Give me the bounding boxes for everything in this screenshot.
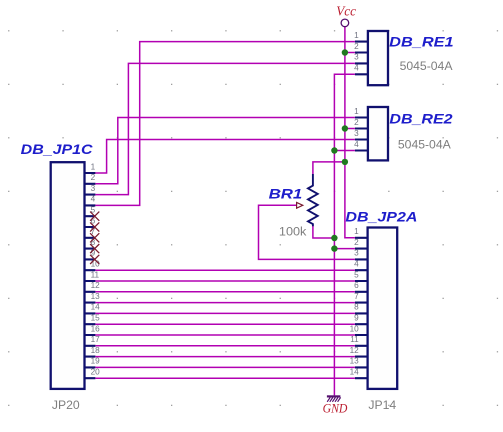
svg-text:2: 2 <box>354 42 359 51</box>
wire BR1 top to Vcc rail <box>313 162 345 174</box>
svg-text:18: 18 <box>91 346 101 355</box>
wire BR1 bottom to GND rail <box>313 226 335 238</box>
DB_JP1C pin stubs 1-20 <box>85 173 96 378</box>
DB_JP2A pin numbers 1-14 <box>350 227 360 376</box>
wire JP1C.3 to RE1.3 <box>95 63 355 194</box>
svg-text:DB_RE2: DB_RE2 <box>389 112 453 127</box>
svg-text:2: 2 <box>354 238 359 247</box>
power port Vcc (circle) <box>341 19 349 27</box>
svg-text:1: 1 <box>91 162 96 171</box>
junction Vcc-BR1.top <box>342 159 348 165</box>
DB_RE1 pin stubs 1-4 <box>355 42 368 75</box>
svg-text:DB_JP2A: DB_JP2A <box>345 209 417 224</box>
bus wires JP1C pins 10-20 to JP2A pins 4-14 <box>95 270 355 378</box>
svg-text:DB_RE1: DB_RE1 <box>389 34 453 49</box>
svg-text:2: 2 <box>91 173 96 182</box>
svg-text:4: 4 <box>91 195 96 204</box>
wire GND tap RE2.4 <box>334 150 355 152</box>
no-connect X marks on JP1C pins 5-9 <box>90 212 99 264</box>
wire Vcc rail down to JP2A.1 <box>345 27 355 238</box>
wire Vcc tap to RE1.2 <box>345 52 355 54</box>
svg-text:9: 9 <box>354 314 359 323</box>
junction Vcc-RE2.2 <box>342 125 348 131</box>
svg-text:4: 4 <box>354 140 359 149</box>
svg-text:Vcc: Vcc <box>336 4 357 19</box>
DB_JP1C pin numbers 1-20 <box>91 162 101 376</box>
svg-text:15: 15 <box>91 314 101 323</box>
svg-text:19: 19 <box>91 357 101 366</box>
DB_RE2 pin stubs 1-4 <box>355 118 368 151</box>
svg-text:11: 11 <box>350 335 359 344</box>
wire BR1 wiper to JP2A.3 <box>259 205 355 259</box>
svg-text:11: 11 <box>91 270 100 279</box>
junction GND-BR1.bottom <box>331 235 337 241</box>
svg-text:12: 12 <box>91 281 101 290</box>
resistor BR1 body (zigzag) <box>308 174 318 226</box>
connector DB_RE1 box <box>368 31 388 85</box>
DB_RE2 pin numbers <box>354 107 359 149</box>
svg-text:1: 1 <box>354 31 359 40</box>
svg-text:1: 1 <box>354 227 359 236</box>
svg-text:5: 5 <box>354 270 359 279</box>
svg-text:1: 1 <box>354 107 359 116</box>
DB_RE1 pin numbers <box>354 31 359 73</box>
svg-text:2: 2 <box>354 118 359 127</box>
svg-text:14: 14 <box>91 303 101 312</box>
svg-text:5045-04A: 5045-04A <box>400 59 454 73</box>
connector DB_RE2 box <box>368 107 388 160</box>
ground symbol <box>327 395 341 397</box>
svg-text:14: 14 <box>350 368 360 377</box>
junction GND-RE2.4 <box>331 147 337 153</box>
wire GND tap to JP2A.2 <box>334 248 355 250</box>
svg-text:17: 17 <box>91 335 101 344</box>
svg-text:13: 13 <box>350 357 360 366</box>
svg-text:JP14: JP14 <box>368 398 396 412</box>
svg-text:3: 3 <box>91 184 96 193</box>
BR1 wiper arrow <box>297 202 303 208</box>
wire Vcc tap to RE2.2 <box>345 128 355 130</box>
svg-text:10: 10 <box>350 324 360 333</box>
svg-text:12: 12 <box>350 346 360 355</box>
svg-text:20: 20 <box>91 368 101 377</box>
svg-text:JP20: JP20 <box>52 398 80 412</box>
connector U: DB_JP1C box <box>51 162 85 389</box>
wire JP1C.4 to RE1.1 <box>95 42 355 206</box>
svg-text:7: 7 <box>354 292 359 301</box>
wire JP1C.1 to RE2.3 <box>95 140 355 174</box>
svg-text:3: 3 <box>354 249 359 258</box>
svg-text:6: 6 <box>354 281 359 290</box>
svg-text:16: 16 <box>91 324 101 333</box>
svg-text:3: 3 <box>354 129 359 138</box>
svg-text:13: 13 <box>91 292 101 301</box>
junction GND-JP2A.2 <box>331 245 337 251</box>
svg-text:BR1: BR1 <box>269 187 303 202</box>
svg-text:DB_JP1C: DB_JP1C <box>21 142 93 157</box>
connector DB_JP2A box <box>368 228 398 389</box>
junction Vcc-RE1.2 <box>342 49 348 55</box>
wire JP1C.2 to RE2.1 <box>95 118 355 184</box>
svg-text:4: 4 <box>354 260 359 269</box>
svg-text:100k: 100k <box>279 224 307 238</box>
svg-text:4: 4 <box>354 64 359 73</box>
wire GND net RE1.4 down to GND <box>334 74 355 395</box>
svg-text:8: 8 <box>354 303 359 312</box>
DB_JP2A pin stubs 1-14 <box>355 238 368 378</box>
svg-text:5045-04A: 5045-04A <box>398 138 452 152</box>
svg-text:3: 3 <box>354 53 359 62</box>
svg-text:GND: GND <box>323 402 348 416</box>
